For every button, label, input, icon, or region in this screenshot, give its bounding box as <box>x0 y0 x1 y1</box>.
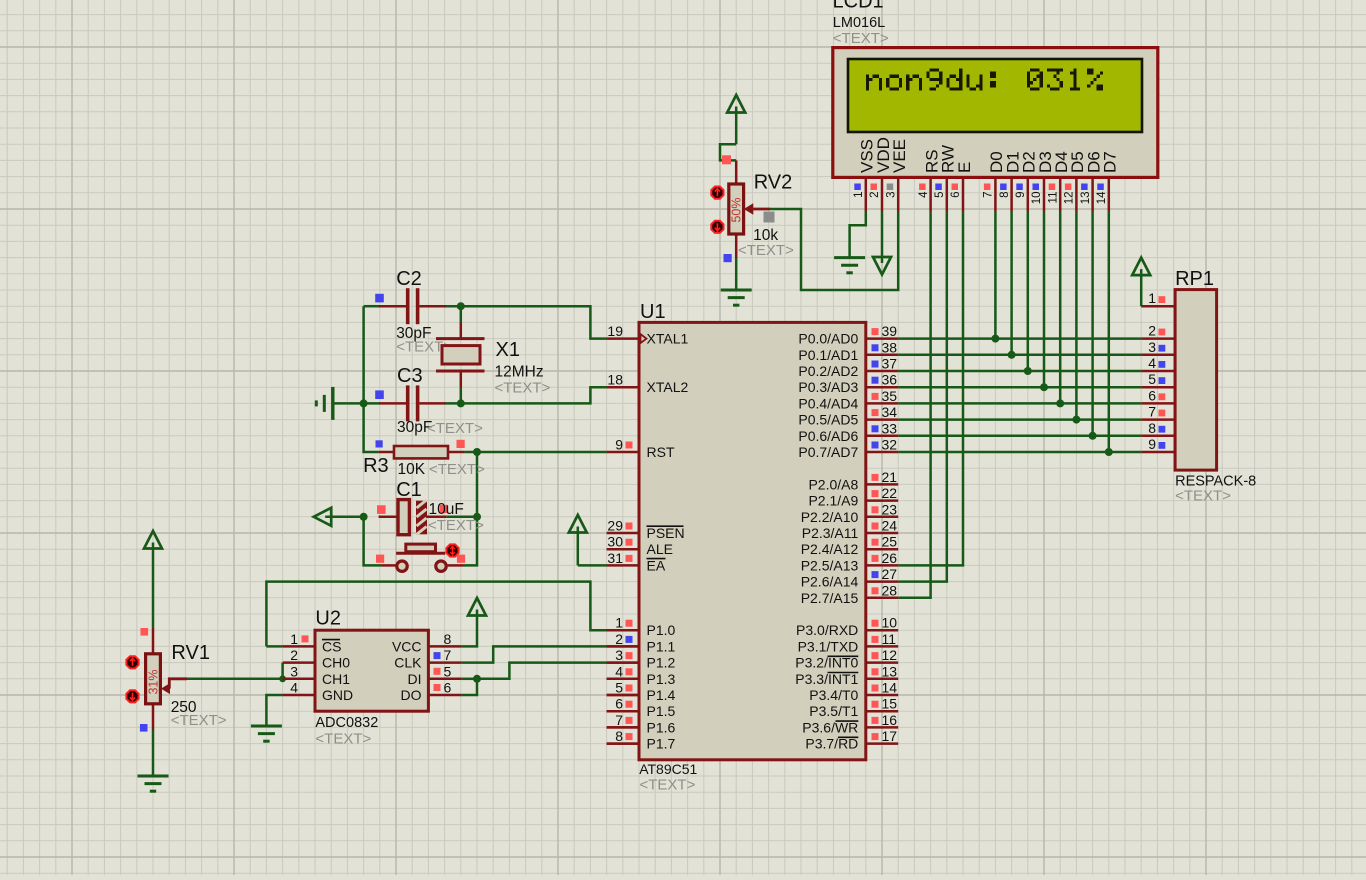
svg-text:23: 23 <box>882 501 898 517</box>
ground left of C3 <box>316 387 333 420</box>
svg-text:P1.1: P1.1 <box>647 638 676 654</box>
capacitor C3 terminal square <box>375 390 384 399</box>
label LCD1 ref <box>833 0 884 13</box>
wire DI junction to P1.2 <box>477 663 607 679</box>
U1 left pin names <box>647 331 689 752</box>
svg-text:6: 6 <box>615 696 623 712</box>
svg-text:30: 30 <box>607 534 623 550</box>
label U2 ref <box>315 608 341 630</box>
svg-text:3: 3 <box>1148 339 1156 355</box>
svg-text:31%: 31% <box>147 669 161 694</box>
svg-text:<TEXT>: <TEXT> <box>1175 488 1231 505</box>
capacitor C2 terminal square <box>375 294 384 303</box>
svg-text:<TEXT>: <TEXT> <box>315 731 371 748</box>
wire ground to C3 row <box>334 402 379 405</box>
potentiometer RV2 up control <box>711 187 723 199</box>
svg-text:16: 16 <box>882 712 898 728</box>
wire column C2-C3-R3 left <box>364 306 379 452</box>
junction C3/crystal <box>457 399 465 407</box>
svg-text:10K: 10K <box>398 461 426 478</box>
svg-text:PSEN: PSEN <box>647 525 685 541</box>
svg-text:<TEXT>: <TEXT> <box>738 242 794 259</box>
wire P0.1 to RP1 pin3 <box>898 354 1141 357</box>
junction C2/crystal <box>457 302 465 310</box>
potentiometer RV1 <box>146 628 187 730</box>
svg-text:RST: RST <box>647 444 675 460</box>
U2 pin numbers <box>290 631 451 696</box>
svg-text:<TEXT>: <TEXT> <box>495 380 551 397</box>
power arrow at EA <box>569 515 587 565</box>
svg-text:P1.6: P1.6 <box>647 719 676 735</box>
svg-text:11: 11 <box>882 631 897 647</box>
svg-text:36: 36 <box>882 372 898 388</box>
wire LCD RS to P2.7 <box>898 211 930 598</box>
svg-text:22: 22 <box>882 485 898 501</box>
label R3 value 10K <box>398 461 426 478</box>
label RV2 value 10k <box>753 227 778 244</box>
junction D7/P0.7 <box>1105 448 1113 456</box>
svg-text:2: 2 <box>290 647 298 663</box>
wire U2 DO jog to DI row <box>461 679 477 695</box>
label R3 TEXT <box>429 461 485 478</box>
wire RV2 top jog <box>720 144 736 160</box>
svg-text:X1: X1 <box>496 339 520 361</box>
svg-text:19: 19 <box>607 323 623 339</box>
U1 left pin squares <box>626 442 633 741</box>
wire RV1 bottom to ground <box>152 730 155 776</box>
svg-text:P2.7/A15: P2.7/A15 <box>801 590 859 606</box>
svg-text:34: 34 <box>882 404 898 420</box>
label C2 value 30pF <box>396 325 431 342</box>
wire U2 VCC to power arrow <box>461 614 477 646</box>
svg-text:14: 14 <box>1096 191 1108 204</box>
U1 right pin squares <box>872 328 879 740</box>
svg-text:35: 35 <box>882 388 898 404</box>
svg-text:<TEXT>: <TEXT> <box>640 777 696 794</box>
svg-text:XTAL2: XTAL2 <box>647 379 689 395</box>
crystal X1 <box>436 323 485 388</box>
svg-text:3: 3 <box>615 647 623 663</box>
wire P0.2 to RP1 pin4 <box>898 370 1141 373</box>
potentiometer RV2 terminal squares <box>722 155 775 262</box>
svg-text:C1: C1 <box>396 479 422 501</box>
svg-text:C3: C3 <box>397 365 423 387</box>
wire LCD D3 down to P0.3 row <box>1043 211 1046 387</box>
svg-text:7: 7 <box>444 647 452 663</box>
svg-text:U1: U1 <box>640 301 666 323</box>
svg-text:CH1: CH1 <box>322 671 350 687</box>
svg-text:ADC0832: ADC0832 <box>315 715 378 731</box>
svg-text:5: 5 <box>934 192 946 198</box>
svg-text:CS: CS <box>322 638 341 654</box>
svg-text:P3.4/T0: P3.4/T0 <box>809 687 858 703</box>
svg-text:9: 9 <box>615 437 623 453</box>
label RP1 value RESPACK-8 <box>1175 474 1256 490</box>
label X1 value 12MHz <box>495 364 544 381</box>
svg-text:1: 1 <box>1148 290 1156 306</box>
wire C1 right to column <box>446 516 477 519</box>
svg-text:18: 18 <box>607 372 623 388</box>
wire crystal stem bottom <box>460 387 463 403</box>
label U2 value ADC0832 <box>315 715 378 731</box>
label RP1 ref <box>1175 268 1214 290</box>
svg-text:21: 21 <box>882 469 898 485</box>
wire LCD D2 down to P0.2 row <box>1027 211 1030 371</box>
power arrow at U2 VCC <box>468 598 486 616</box>
label U1 TEXT <box>640 777 696 794</box>
push button toggle control <box>446 544 458 556</box>
potentiometer RV1 terminal squares <box>140 628 148 732</box>
svg-text:P2.3/A11: P2.3/A11 <box>802 525 859 541</box>
wire LCD D5 down to P0.5 row <box>1075 211 1078 420</box>
svg-text:XTAL1: XTAL1 <box>647 331 689 347</box>
svg-text:15: 15 <box>882 696 898 712</box>
U1 right pin numbers <box>882 323 898 744</box>
junction D4/P0.4 <box>1056 399 1064 407</box>
junction D6/P0.6 <box>1089 432 1097 440</box>
svg-text:6: 6 <box>950 192 962 198</box>
label RV1 value 250 <box>171 699 197 716</box>
wire CH0 tie to CH1 <box>281 663 284 679</box>
ground at LCD VSS <box>834 258 865 273</box>
svg-text:4: 4 <box>1148 355 1156 371</box>
svg-text:14: 14 <box>882 680 898 696</box>
junction D1/P0.1 <box>1008 351 1016 359</box>
svg-text:P2.2/A10: P2.2/A10 <box>801 509 859 525</box>
resistor R3 <box>379 446 465 458</box>
label C3 value 30pF <box>397 419 432 436</box>
wire C1 left column to button <box>364 517 382 566</box>
svg-text:1: 1 <box>290 631 298 647</box>
wire LCD VSS to ground <box>850 211 866 258</box>
svg-text:P0.7/AD7: P0.7/AD7 <box>798 444 858 460</box>
label U1 value AT89C51 <box>639 761 697 777</box>
svg-text:P3.0/RXD: P3.0/RXD <box>796 622 858 638</box>
label R3 ref <box>363 455 389 477</box>
ground at U2 <box>251 726 282 741</box>
svg-text:13: 13 <box>882 663 898 679</box>
capacitor C1 terminal squares <box>377 505 448 514</box>
svg-text:33: 33 <box>882 420 898 436</box>
svg-text:7: 7 <box>1148 404 1156 420</box>
svg-text:10: 10 <box>1031 192 1043 205</box>
svg-text:P0.6/AD6: P0.6/AD6 <box>798 428 858 444</box>
wire U2 DI to junction <box>461 678 477 681</box>
svg-text:GND: GND <box>322 687 353 703</box>
junction R3/RST/reset column <box>473 448 481 456</box>
svg-text:38: 38 <box>882 339 898 355</box>
svg-text:P1.2: P1.2 <box>647 655 676 671</box>
svg-text:<TEXT>: <TEXT> <box>428 517 484 534</box>
wire C2 left to column <box>364 305 379 308</box>
svg-text:CLK: CLK <box>394 655 422 671</box>
svg-text:RV2: RV2 <box>754 172 793 194</box>
ground at RV2 <box>721 290 752 305</box>
wire RV1 wiper to U2 CH1 <box>187 678 283 681</box>
svg-text:25: 25 <box>882 534 898 550</box>
wire LCD D1 down to P0.1 row <box>1010 211 1013 355</box>
wire reset column RST to C1 to button <box>463 452 477 565</box>
svg-text:<TEXT>: <TEXT> <box>427 420 483 437</box>
svg-text:8: 8 <box>444 631 452 647</box>
svg-text:50%: 50% <box>730 197 744 222</box>
svg-text:4: 4 <box>615 663 623 679</box>
svg-text:10: 10 <box>882 615 898 631</box>
wire U2 CLK to P1.1 <box>461 646 606 662</box>
LCD pin labels <box>858 137 1120 173</box>
label X1 TEXT <box>495 380 551 397</box>
capacitor C3 <box>379 385 446 421</box>
wire LCD E to P2.5 <box>898 211 963 565</box>
wire RV2 bottom to ground <box>735 258 738 290</box>
svg-text:DI: DI <box>408 671 422 687</box>
svg-text:P1.3: P1.3 <box>647 671 676 687</box>
svg-text:P2.1/A9: P2.1/A9 <box>808 493 858 509</box>
label C2 ref <box>396 268 422 290</box>
wire LCD D6 down to P0.6 row <box>1091 211 1094 436</box>
label LCD1 value LM016L <box>833 15 885 31</box>
svg-text:<TEXT>: <TEXT> <box>171 712 227 729</box>
svg-text:4: 4 <box>918 191 930 198</box>
svg-text:39: 39 <box>882 323 898 339</box>
svg-text:1: 1 <box>615 615 623 631</box>
label X1 ref <box>496 339 520 361</box>
wire P0.5 to RP1 pin7 <box>898 418 1141 421</box>
label U1 ref <box>640 301 666 323</box>
label U2 TEXT <box>315 731 371 748</box>
LCD screen <box>848 59 1142 132</box>
wire P0.7 to RP1 pin9 <box>898 451 1141 454</box>
label C1 TEXT <box>428 517 484 534</box>
label C2 TEXT <box>396 339 452 356</box>
svg-text:P0.3/AD3: P0.3/AD3 <box>798 379 858 395</box>
wire EA arrow to pin <box>578 564 607 567</box>
svg-text:P2.0/A8: P2.0/A8 <box>808 476 858 492</box>
svg-text:2: 2 <box>869 192 881 198</box>
svg-text:29: 29 <box>607 518 623 534</box>
svg-text:P3.5/T1: P3.5/T1 <box>809 703 858 719</box>
svg-text:11: 11 <box>1047 192 1059 204</box>
label RV2 TEXT <box>738 242 794 259</box>
wire LCD D0 down to P0.0 row <box>994 211 997 339</box>
wire LCD RW to P2.6 <box>898 211 947 582</box>
junction D5/P0.5 <box>1072 416 1080 424</box>
label RP1 TEXT <box>1175 488 1231 505</box>
junction C3 column <box>360 399 368 407</box>
wire C3 right to XTAL2 <box>446 387 607 403</box>
svg-text:VEE: VEE <box>890 139 909 173</box>
svg-text:P1.7: P1.7 <box>647 736 676 752</box>
svg-text:P1.4: P1.4 <box>647 687 676 703</box>
svg-text:9: 9 <box>1015 192 1027 198</box>
power arrow at RP1 pin1 <box>1132 258 1150 307</box>
svg-text:32: 32 <box>882 437 898 453</box>
svg-text:7: 7 <box>983 192 995 198</box>
svg-text:LM016L: LM016L <box>833 15 885 31</box>
microcontroller U1 AT89C51 <box>607 322 899 759</box>
svg-text:E: E <box>955 162 974 173</box>
label LCD1 TEXT <box>833 30 889 47</box>
label C3 TEXT <box>427 420 483 437</box>
RP1 pin numbers <box>1148 290 1156 452</box>
svg-text:DO: DO <box>401 687 422 703</box>
junction D3/P0.3 <box>1040 383 1048 391</box>
svg-text:12MHz: 12MHz <box>495 364 544 381</box>
svg-text:8: 8 <box>999 192 1011 198</box>
junction C1 left <box>360 513 368 521</box>
svg-text:1: 1 <box>853 192 865 198</box>
power arrow down at LCD VDD <box>873 211 891 275</box>
U2 pin names <box>322 638 422 703</box>
wire P0.4 to RP1 pin6 <box>898 402 1141 405</box>
power arrow at RV2 <box>727 95 745 144</box>
resistor pack RP1 RESPACK-8 <box>1141 290 1216 471</box>
push button reset <box>382 544 463 571</box>
power arrow at C1 left <box>314 508 364 526</box>
svg-text:17: 17 <box>882 728 898 744</box>
potentiometer RV2 down control <box>711 221 723 233</box>
svg-text:RV1: RV1 <box>171 642 210 664</box>
svg-text:28: 28 <box>882 582 898 598</box>
svg-text:CH0: CH0 <box>322 655 350 671</box>
svg-text:12: 12 <box>882 647 898 663</box>
svg-text:P0.5/AD5: P0.5/AD5 <box>798 412 858 428</box>
svg-text:26: 26 <box>882 550 898 566</box>
U1 left P1 pins <box>607 630 639 743</box>
svg-text:VCC: VCC <box>392 638 422 654</box>
push button terminal squares <box>376 555 465 563</box>
ADC U2 ADC0832 <box>283 630 462 711</box>
svg-text:P3.1/TXD: P3.1/TXD <box>798 638 859 654</box>
wire P0.6 to RP1 pin8 <box>898 435 1141 438</box>
svg-text:2: 2 <box>615 631 623 647</box>
svg-text:R3: R3 <box>363 455 389 477</box>
LCD pin squares <box>854 184 1104 191</box>
wire U2 GND to ground <box>266 695 282 726</box>
wire crystal stem top <box>460 306 463 322</box>
potentiometer RV1 down control <box>126 690 138 702</box>
svg-text:P0.0/AD0: P0.0/AD0 <box>798 331 858 347</box>
svg-text:24: 24 <box>882 518 898 534</box>
junction CH1 <box>279 675 286 682</box>
wire LCD D7 down to P0.7 row <box>1108 211 1111 452</box>
junction C1 right <box>473 513 481 521</box>
svg-text:P2.6/A14: P2.6/A14 <box>801 574 859 590</box>
label RV2 ref <box>754 172 793 194</box>
svg-text:P0.1/AD1: P0.1/AD1 <box>798 347 858 363</box>
svg-text:P1.5: P1.5 <box>647 703 676 719</box>
junction DI/DO <box>473 675 481 683</box>
LCD pin numbers <box>853 191 1108 204</box>
wire C2 right to XTAL1 <box>446 306 607 338</box>
svg-text:12: 12 <box>1064 192 1076 205</box>
svg-text:C2: C2 <box>396 268 422 290</box>
svg-text:LCD1: LCD1 <box>833 0 884 13</box>
svg-text:P2.5/A13: P2.5/A13 <box>801 557 859 573</box>
wire U2 CS to P1.0 <box>266 582 606 647</box>
svg-text:37: 37 <box>882 356 898 372</box>
svg-text:3: 3 <box>885 192 897 198</box>
svg-text:7: 7 <box>615 712 623 728</box>
label C1 value 10uF <box>429 501 464 518</box>
U1 right pin names <box>795 331 858 752</box>
svg-text:ALE: ALE <box>647 541 673 557</box>
label RV1 TEXT <box>171 712 227 729</box>
label C1 ref <box>396 479 422 501</box>
LCD display LCD1 LM016L <box>833 48 1158 211</box>
svg-text:P2.4/A12: P2.4/A12 <box>801 541 859 557</box>
junction D0/P0.0 <box>991 335 999 343</box>
wire LCD D4 down to P0.4 row <box>1059 211 1062 403</box>
LCD text non9du: 031% <box>866 68 1103 90</box>
capacitor C2 <box>379 288 446 324</box>
svg-text:P0.4/AD4: P0.4/AD4 <box>798 395 858 411</box>
wire P0.3 to RP1 pin5 <box>898 386 1141 389</box>
svg-text:8: 8 <box>1148 420 1156 436</box>
U1 left pin numbers <box>607 323 623 744</box>
ground at RV1 <box>138 776 169 791</box>
svg-text:<TEXT>: <TEXT> <box>429 461 485 478</box>
wire P0.0 to RP1 pin2 <box>898 337 1141 340</box>
svg-text:6: 6 <box>1148 387 1156 403</box>
svg-text:P0.2/AD2: P0.2/AD2 <box>798 363 858 379</box>
svg-text:13: 13 <box>1080 192 1092 205</box>
capacitor C1 electrolytic <box>379 500 447 535</box>
wire RV2 wiper to LCD VEE <box>770 209 898 290</box>
svg-text:8: 8 <box>615 728 623 744</box>
svg-text:9: 9 <box>1148 436 1156 452</box>
svg-text:<TEXT>: <TEXT> <box>833 30 889 47</box>
potentiometer RV1 up control <box>126 656 138 668</box>
svg-text:AT89C51: AT89C51 <box>639 761 697 777</box>
svg-text:5: 5 <box>615 680 623 696</box>
svg-text:U2: U2 <box>315 608 341 630</box>
svg-text:10uF: 10uF <box>429 501 464 518</box>
svg-text:4: 4 <box>290 680 298 696</box>
svg-text:5: 5 <box>1148 371 1156 387</box>
svg-text:3: 3 <box>290 663 298 679</box>
U2 pin squares <box>302 635 441 691</box>
potentiometer RV2 <box>729 160 770 258</box>
power arrow at RV1 <box>144 531 162 628</box>
junction D2/P0.2 <box>1024 367 1032 375</box>
resistor R3 terminal squares <box>376 440 465 448</box>
label RV1 ref <box>171 642 210 664</box>
svg-text:27: 27 <box>882 566 898 582</box>
wire R3 right to RST <box>465 451 607 454</box>
RP1 pin squares <box>1159 296 1166 449</box>
svg-text:RP1: RP1 <box>1175 268 1214 290</box>
label C3 ref <box>397 365 423 387</box>
svg-text:6: 6 <box>444 680 452 696</box>
svg-text:P1.0: P1.0 <box>647 622 676 638</box>
svg-text:D7: D7 <box>1101 151 1120 173</box>
svg-text:2: 2 <box>1148 323 1156 339</box>
svg-text:EA: EA <box>647 557 666 573</box>
svg-text:31: 31 <box>607 550 623 566</box>
svg-text:5: 5 <box>444 663 452 679</box>
